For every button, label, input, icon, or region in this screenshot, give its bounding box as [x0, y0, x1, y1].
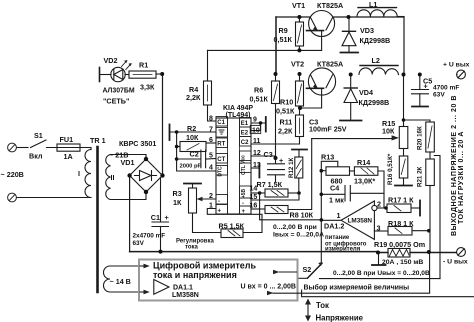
wire drive line pin8 R4 to VT1 base: [208, 49, 322, 51]
svg-text:S2: S2: [303, 265, 312, 274]
VT2 emitter slant with arrow: [311, 75, 318, 88]
svg-text:0...2,00 В при Uвых = 0...20,0: 0...2,00 В при Uвых = 0...20,0В: [333, 270, 430, 277]
wire bridge left corner to minus rail: [129, 176, 131, 252]
VT1 base lead down to drive line: [321, 32, 323, 51]
IC pin numbers: [250, 125, 261, 133]
wire AC input top lead: [17, 147, 29, 149]
junction node at 162.5,175.5: [160, 173, 164, 177]
svg-text:VT2: VT2: [291, 60, 304, 69]
junction node at 428.8,230.7: [427, 229, 431, 233]
wire DA1.2 pin3 input: [374, 230, 388, 232]
svg-text:6: 6: [209, 137, 213, 144]
shunt R19 body: [388, 249, 410, 258]
capacitor C3 electrolytic: [268, 158, 285, 182]
svg-text:1А: 1А: [64, 152, 73, 161]
transformer TR1 winding 14V: [104, 266, 111, 292]
LED VD2 circle: [111, 67, 125, 81]
wire minus rail bottom: [130, 251, 378, 253]
svg-text:100mF 25V: 100mF 25V: [309, 125, 347, 134]
wire R2 right lead to pin 6: [206, 142, 216, 144]
junction node at 259.6,193: [258, 191, 262, 195]
capacitor C4 plates: [345, 186, 350, 202]
wire R19 right lead to terminal: [410, 252, 457, 254]
wire R7 right node: [288, 192, 299, 194]
junction node at 299.4,17: [297, 15, 301, 19]
wire S1 to FU1 to TR1: [49, 147, 92, 149]
junction node at 428.8,252: [427, 250, 431, 254]
ground bar R19: [372, 264, 386, 266]
meter box border: [139, 260, 298, 301]
IC pin 7 ground glyph: [219, 130, 225, 134]
svg-text:2: 2: [209, 193, 213, 200]
wire VT1 collector to L1: [403, 17, 405, 75]
junction node at 300,108: [298, 106, 302, 110]
svg-text:R6: R6: [254, 86, 263, 95]
svg-text:CT: CT: [217, 157, 225, 163]
svg-text:Цифровой измеритель: Цифровой измеритель: [153, 261, 257, 271]
IC pin boxes left: [216, 117, 251, 215]
resistor R1 body: [129, 71, 156, 78]
svg-text:LM358N: LM358N: [172, 292, 199, 299]
svg-text:12: 12: [253, 150, 261, 157]
resistor R13 body: [326, 167, 350, 176]
output terminal plus: [457, 70, 466, 79]
resistor R7 body: [265, 189, 288, 197]
op-amp DA1.1 triangle: [154, 280, 169, 295]
wire pin 12 to C3 node: [251, 155, 276, 157]
svg-text:5: 5: [209, 153, 213, 160]
junction node at 386,208: [384, 206, 388, 210]
wire R3 bottom to R5 left: [193, 213, 222, 233]
transformer TR1 core: [96, 147, 99, 292]
bridge rectifier VD1 diamond: [130, 159, 163, 192]
svg-text:2,2К: 2,2К: [278, 127, 293, 136]
svg-text:LM358N: LM358N: [348, 218, 373, 225]
output terminal minus: [457, 248, 466, 257]
svg-text:10: 10: [252, 128, 260, 135]
LED VD2 diode: [114, 70, 123, 80]
wire R17 right to bar: [411, 207, 420, 209]
resistor R10 body: [296, 81, 304, 106]
svg-text:КТ825А: КТ825А: [317, 1, 343, 10]
svg-text:9: 9: [253, 117, 257, 124]
potentiometer R3 body: [189, 188, 197, 213]
svg-text:2: 2: [377, 200, 381, 209]
svg-text:R1: R1: [139, 61, 148, 70]
svg-text:тока: тока: [185, 245, 199, 251]
svg-text:Выбор измеряемой величины: Выбор измеряемой величины: [304, 284, 410, 292]
transistor VT1 circle: [309, 11, 335, 37]
VT2 collector slant: [326, 75, 333, 88]
junction node at 146,159: [144, 157, 148, 161]
ground bar at pin 7: [169, 125, 171, 141]
switch S2 lever: [308, 264, 322, 279]
svg-text:S1: S1: [34, 131, 43, 140]
ground bar VD4: [340, 120, 362, 122]
svg-text:VD1: VD1: [121, 158, 135, 167]
switch S2 vertical from feedback node: [320, 221, 322, 263]
wire R15 to R16: [403, 149, 405, 157]
junction node at 176.6,159: [175, 157, 179, 161]
switch S1 lever: [31, 140, 49, 148]
wire vertical node R2 C2 pin4: [177, 132, 216, 171]
wire AC input bottom lead: [17, 197, 92, 199]
svg-text:3: 3: [377, 224, 381, 233]
svg-text:VT1: VT1: [292, 1, 305, 10]
wire pin 1 down and under IC to R5 right: [207, 209, 262, 233]
ground bar R17: [419, 201, 421, 216]
wire bridge right corner up to plus rail: [162, 74, 164, 176]
resistor R5 body: [221, 229, 243, 238]
svg-text:63V: 63V: [133, 240, 145, 247]
wire pin 14 ref line down right: [260, 193, 322, 220]
wire R4 top lead up to drive line: [207, 50, 209, 81]
VT1 emitter collector chord: [276, 16, 404, 18]
junction node at 176.6,132: [175, 130, 179, 134]
svg-text:R8 10К: R8 10К: [290, 211, 314, 220]
svg-text:20А , 150 мВ: 20А , 150 мВ: [382, 259, 423, 266]
svg-text:+: +: [218, 209, 222, 215]
svg-text:0,51К: 0,51К: [274, 35, 293, 44]
svg-text:L2: L2: [372, 56, 380, 65]
junction node at 160.5,251.6: [159, 250, 163, 254]
svg-text:Vcc: Vcc: [241, 155, 247, 164]
svg-text:VD2: VD2: [104, 56, 118, 65]
resistor R20 body: [426, 122, 435, 152]
resistor R14 body: [354, 167, 378, 176]
inductor L2: [359, 68, 399, 75]
svg-text:R5 1,5К: R5 1,5К: [219, 222, 245, 231]
VT2 base bar: [307, 87, 324, 89]
svg-text:АЛ307БМ: АЛ307БМ: [103, 88, 135, 95]
VT1 collector slant: [326, 18, 333, 31]
svg-text:~ 220В: ~ 220В: [1, 170, 24, 179]
wire DA1.2 output to feedback node: [321, 219, 341, 221]
wire R13 left: [321, 170, 326, 172]
svg-text:E2: E2: [241, 131, 249, 137]
resistor R4 body: [204, 81, 212, 105]
svg-text:2x4700 mF: 2x4700 mF: [133, 233, 166, 240]
svg-text:4: 4: [209, 165, 213, 172]
L2 core bar: [360, 65, 398, 67]
svg-text:R13: R13: [321, 153, 334, 162]
svg-text:C1: C1: [217, 120, 225, 126]
wire branch to R20: [404, 120, 431, 122]
junction node at 403.5,120: [402, 118, 406, 122]
wire divider tap jog to S2 throw: [434, 156, 440, 279]
svg-text:R2: R2: [187, 124, 196, 133]
wire C1 bottom to minus rail: [160, 227, 162, 252]
svg-text:DA1.1: DA1.1: [173, 285, 193, 292]
wire R9 top lead: [298, 17, 300, 22]
VT2 base lead down left to R10 R11 junction: [300, 89, 322, 108]
wire R20 to R21: [429, 152, 431, 159]
svg-text:15: 15: [250, 194, 258, 201]
svg-text:- U вых: - U вых: [443, 259, 468, 266]
svg-text:RT: RT: [217, 142, 225, 148]
svg-text:Вкл: Вкл: [29, 152, 43, 161]
wire winding 14V top to meter box: [110, 265, 140, 267]
junction node at 321.3,219.9: [320, 218, 324, 222]
svg-text:U вх = 0 ... 2,00В: U вх = 0 ... 2,00В: [241, 283, 296, 290]
svg-text:DA1.2: DA1.2: [324, 222, 344, 231]
svg-text:+: +: [424, 81, 428, 90]
junction node at 403.5,74.5: [402, 73, 406, 77]
svg-text:(TL494): (TL494): [226, 112, 251, 119]
resistor R8 body: [265, 206, 288, 214]
svg-text:ТОК НАГРУЗКИ 0... 20 А: ТОК НАГРУЗКИ 0... 20 А: [458, 131, 465, 224]
wire winding 14V bottom to meter box: [110, 291, 140, 293]
svg-text:L1: L1: [369, 0, 377, 9]
svg-text:C1: C1: [151, 213, 160, 222]
transformer TR1 secondary winding II: [106, 155, 111, 200]
L1 core bar: [358, 7, 397, 9]
DA1.2 inverting bubble: [372, 205, 377, 210]
svg-text:C2: C2: [241, 140, 249, 146]
wire pin 7 to ground bar: [171, 131, 217, 133]
wire R12 bottom to R7 right node: [298, 178, 300, 193]
svg-text:Напряжение: Напряжение: [316, 314, 364, 322]
svg-text:13: 13: [253, 162, 261, 169]
svg-text:R19 0,0075 Om: R19 0,0075 Om: [374, 240, 425, 249]
wire R4 bottom to pin 8: [208, 105, 217, 121]
wire DA1.2 pin2 input: [377, 207, 387, 209]
svg-text:R10: R10: [280, 98, 293, 107]
svg-text:C2: C2: [190, 150, 199, 159]
svg-text:"СЕТЬ": "СЕТЬ": [103, 97, 129, 106]
resistor R2 body: [180, 142, 206, 152]
svg-text:+5B: +5B: [241, 188, 247, 198]
svg-text:ВЫХОДНОЕ НАПРЯЖЕНИЕ 2 ... 20 В: ВЫХОДНОЕ НАПРЯЖЕНИЕ 2 ... 20 В: [451, 95, 458, 236]
svg-text:тока и напряжения: тока и напряжения: [153, 270, 237, 280]
svg-text:0,51К: 0,51К: [276, 107, 295, 116]
selector double arrow: [307, 303, 309, 318]
wire R21 bottom to R18 node to rail: [429, 186, 431, 253]
svg-text:C4: C4: [330, 184, 339, 193]
transistor VT2 circle: [308, 68, 335, 95]
diode VD3: [348, 17, 350, 31]
potentiometer R15 body: [399, 127, 408, 149]
LED VD2 emission arrows: [122, 61, 131, 70]
svg-text:R3: R3: [173, 189, 182, 198]
resistor R12 body: [295, 157, 303, 178]
wire C4 left: [321, 193, 345, 195]
wire winding II top to bridge top corner: [111, 155, 147, 160]
wire R15 wiper line: [312, 138, 392, 140]
junction node at 321.3,170.7: [320, 169, 324, 173]
wire pins 9 10 tie: [251, 123, 265, 131]
op-amp DA1.2 triangle: [341, 201, 374, 239]
wire pin 15 up to R7 right node: [251, 193, 299, 200]
IC title: [223, 105, 253, 119]
svg-text:63V: 63V: [433, 91, 445, 98]
wire frame line below Vybor: [302, 290, 474, 297]
svg-text:R14: R14: [357, 158, 370, 167]
junction node at 260.5,123.5: [259, 121, 263, 125]
wire emitter bus VT1 to rail: [275, 17, 277, 74]
capacitor C1 plates: [152, 222, 169, 227]
wire C4 right: [350, 192, 384, 194]
svg-text:VD4: VD4: [359, 88, 373, 97]
svg-text:КД2998В: КД2998В: [359, 98, 390, 107]
svg-text:2,2К: 2,2К: [186, 93, 201, 102]
junction node at 299,193: [297, 191, 301, 195]
junction node at 129.6,175.5: [127, 173, 131, 177]
junction node at 176.6,143.5: [175, 145, 179, 149]
junction node at 299.5,74: [298, 72, 302, 76]
wire R11 bottom to pin 11 line: [251, 137, 300, 145]
svg-text:16: 16: [250, 203, 258, 210]
arrow 14V bottom into box: [140, 291, 144, 293]
wire terminal stub: [456, 74, 458, 76]
wire R13 to R14: [350, 170, 355, 172]
wire S2 lower throw line: [320, 278, 441, 280]
resistor R6 body: [272, 81, 280, 104]
junction node at 275.5,74: [274, 72, 278, 76]
svg-text:Ток: Ток: [316, 301, 329, 310]
junction node at 162.2,74: [160, 72, 164, 76]
svg-text:VD3: VD3: [360, 26, 374, 35]
svg-text:R11: R11: [280, 118, 293, 127]
resistor R16 body: [399, 156, 408, 178]
input terminal top: [8, 143, 17, 152]
wire bar to R3 top: [192, 184, 194, 188]
wire feedback vertical node: [321, 161, 338, 220]
wiper arrow from pin 2 to R3: [200, 198, 216, 200]
svg-text:DTC: DTC: [218, 166, 224, 177]
rotated labels: [288, 126, 424, 187]
arrow U in upper: [280, 271, 297, 273]
svg-text:1 мк: 1 мк: [329, 196, 344, 205]
svg-text:E1: E1: [241, 121, 249, 127]
VT1 emitter slant with arrow: [311, 18, 318, 31]
svg-text:1: 1: [209, 203, 213, 210]
wire R10 bottom to R11 top: [299, 106, 301, 115]
wire R9 bottom lead: [298, 46, 300, 50]
junction node at 275.5,158: [274, 156, 278, 160]
svg-text:КВРС 3501: КВРС 3501: [119, 139, 156, 148]
svg-text:8: 8: [209, 116, 213, 123]
svg-text:-: -: [242, 201, 244, 207]
resistor R18 body: [388, 227, 412, 236]
junction node at 146,192: [144, 190, 148, 194]
svg-text:питание: питание: [325, 235, 350, 241]
svg-text:КТ825А: КТ825А: [317, 60, 343, 69]
wire C2 left lead: [177, 158, 201, 160]
transformer TR1 primary winding I: [90, 148, 92, 150]
svg-text:R7 1,5К: R7 1,5К: [257, 180, 283, 189]
junction node at 350.7,74.5: [349, 73, 353, 77]
wire R8 right to feedback node: [288, 139, 312, 210]
junction node at 419.8,74.5: [418, 73, 422, 77]
diode inside VD1: [135, 171, 157, 181]
resistor R9 body: [296, 22, 304, 46]
wire L1 right to output rail: [397, 16, 404, 18]
svg-text:R12 1К: R12 1К: [288, 157, 295, 178]
wire R6 top lead: [275, 74, 277, 81]
ground bar R16: [395, 185, 412, 187]
svg-text:R16 0,51К*: R16 0,51К*: [387, 153, 394, 185]
svg-text:3,3К: 3,3К: [140, 83, 155, 92]
wire LED to R1: [125, 74, 129, 76]
svg-text:7: 7: [209, 127, 213, 134]
svg-text:R18 1 К: R18 1 К: [388, 219, 414, 228]
inductor L1: [357, 10, 397, 17]
svg-text:0...2,00 В при: 0...2,00 В при: [273, 224, 317, 231]
svg-text:KIA 494P: KIA 494P: [223, 105, 253, 112]
svg-text:11: 11: [253, 138, 261, 145]
svg-text:R20 16К: R20 16К: [417, 126, 424, 150]
wire R6 bottom to C3 node: [275, 104, 277, 159]
svg-text:Iвых = 0...20,0А: Iвых = 0...20,0А: [273, 232, 324, 239]
wire R2 left lead: [177, 146, 180, 148]
wire C2 right lead to pin 5: [206, 158, 216, 161]
svg-text:C3: C3: [264, 150, 273, 159]
junction node at 348.5,17: [347, 15, 351, 19]
svg-text:КД2998В: КД2998В: [360, 36, 391, 45]
IC U1 KIA494P box: [216, 118, 251, 214]
fuse FU1 body: [57, 144, 80, 151]
svg-text:измерителя: измерителя: [325, 247, 361, 253]
resistor R11 body: [296, 115, 304, 137]
wire winding II bottom to bridge bottom corner: [111, 193, 147, 200]
wire S2 common into meter box: [298, 277, 308, 279]
resistor R17 body: [387, 204, 411, 213]
wire pin 13 stub: [251, 167, 259, 169]
svg-text:+: +: [165, 213, 169, 222]
svg-text:+: +: [279, 156, 283, 165]
ground bar C5: [412, 106, 428, 108]
wire R16 bottom: [403, 178, 405, 186]
ground bar pin 13: [258, 164, 260, 178]
svg-text:0,51К: 0,51К: [250, 95, 269, 104]
LED VD2 cathode bar terminal: [99, 68, 101, 82]
wire bridge right corner down to C1: [160, 178, 162, 223]
wire bar to R12 top: [298, 150, 300, 157]
wire R18 right to divider: [412, 230, 429, 232]
ground bar VD3: [341, 52, 359, 54]
meter box texts: [153, 261, 257, 281]
svg-text:10К: 10К: [186, 133, 199, 142]
wire R19 left ground stem: [378, 253, 380, 266]
wire R14 right down: [378, 171, 384, 208]
svg-text:R21 2К: R21 2К: [417, 166, 424, 187]
junction node at 378,252.5: [376, 251, 380, 255]
wire R1 to plus rail node: [156, 73, 162, 75]
input terminal bottom: [8, 193, 17, 202]
capacitor C5: [419, 75, 421, 90]
wire R15 column from rail: [403, 75, 405, 127]
svg-text:+ U вых: + U вых: [443, 62, 470, 69]
ground bar above R12: [292, 149, 307, 151]
svg-text:2000 pF: 2000 pF: [180, 164, 202, 170]
junction node at 299.4,50.4: [297, 48, 301, 52]
wire pin 14 to R7: [251, 192, 265, 194]
wire pin 16 to R8: [251, 208, 265, 210]
svg-text:1К: 1К: [173, 198, 182, 207]
svg-text:CTL: CTL: [241, 165, 247, 175]
arrow U in lower: [273, 252, 430, 293]
arrow 14V top into box: [140, 265, 144, 267]
svg-text:TR 1: TR 1: [90, 136, 106, 145]
resistor R21 body: [426, 159, 435, 186]
svg-text:1: 1: [337, 211, 341, 220]
svg-text:R9: R9: [279, 26, 288, 35]
ground bar pins 9 10: [265, 117, 267, 132]
wire R10 top lead: [299, 74, 301, 81]
svg-text:10К: 10К: [382, 127, 395, 136]
svg-text:II: II: [111, 173, 115, 182]
